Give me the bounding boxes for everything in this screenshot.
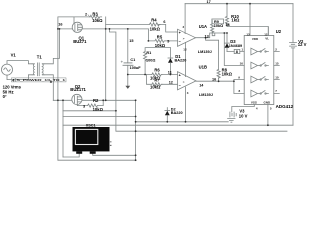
svg-text:LM139J: LM139J [198,50,212,54]
svg-text:3: 3 [187,91,189,95]
svg-text:15: 15 [129,39,133,43]
U1A output wire (net 13 up and right to D3/row2) [196,33,228,38]
bottom rail [58,159,136,161]
wire R1 bottom to net [144,61,146,75]
svg-text:8: 8 [239,89,241,93]
svg-text:C1: C1 [130,58,135,62]
wire Q1 left vertical down (long left bus) [57,17,59,160]
svg-text:BUZ171: BUZ171 [70,87,86,92]
svg-text:10kΩ: 10kΩ [222,72,233,77]
long rail y=131.2 [117,130,288,132]
svg-text:R3: R3 [92,11,98,16]
svg-text:>: > [183,80,185,84]
svg-text:>: > [183,37,185,41]
svg-text:16: 16 [240,61,244,65]
svg-text:VDD: VDD [252,37,259,41]
switch cell S4 [251,90,269,97]
capacitor C1 [121,61,133,65]
svg-text:11: 11 [168,70,172,74]
svg-text:5: 5 [270,107,272,111]
resistor R1 (vertical) [144,52,147,61]
svg-text:BA220: BA220 [175,59,187,63]
svg-text:17: 17 [207,0,211,4]
wire R3 net top [58,16,90,18]
resistor R10 (vertical) [225,4,228,27]
wire R1 top to D1 anode [145,48,170,52]
transistor Q2 [72,94,82,104]
svg-text:10kΩ: 10kΩ [214,24,223,28]
svg-text:18: 18 [225,23,229,27]
diode D1 [168,48,173,75]
op-amp U1B [178,72,197,122]
svg-text:16: 16 [58,23,62,27]
svg-text:14: 14 [199,83,204,87]
wire D3 to chip row1 with boxed 8 [227,51,244,53]
svg-text:6: 6 [163,20,165,24]
svg-text:R4: R4 [151,17,157,22]
wire R7 to U1B pin12 [162,83,178,85]
switch cell S3 [251,76,269,83]
svg-text:XSC1: XSC1 [86,124,96,128]
resistor R5 [148,39,177,42]
svg-text:1: 1 [241,48,243,52]
wire R3 corner to R4 [106,23,150,25]
vertical from Q1 rail jog down to bottom rail [110,29,116,131]
svg-text:R6: R6 [154,68,160,73]
svg-text:R7: R7 [154,79,159,83]
long wire net V3/gnd (y=121.8) [136,121,229,123]
svg-text:10kΩ: 10kΩ [92,18,103,23]
svg-text:100Ω: 100Ω [146,58,155,62]
wire R3 right corner down [105,17,107,100]
wire riser x=135.6 (Q2 rail to bottom) [135,100,137,160]
svg-text:LM139J: LM139J [199,93,213,97]
resistor R2 [88,104,98,107]
svg-text:5: 5 [50,80,52,84]
chip bottom pin 4 to battery V3 [232,105,255,113]
Q1 rail wire [58,28,148,30]
diode D2 [165,108,170,122]
ground arrow below node [127,75,129,86]
chip right stubs [274,52,280,94]
svg-text:S_POWER_10_TO_1: S_POWER_10_TO_1 [17,78,66,82]
Q2 gate wire [77,103,87,105]
svg-text:BA220: BA220 [171,111,183,115]
wire scope bus to jog vertical [63,110,116,112]
svg-text:10kΩ: 10kΩ [150,27,161,32]
svg-text:VL: VL [265,37,269,41]
diode D3 [225,33,230,52]
bracket to R6/R7 [147,75,152,85]
wire R10 bottom to chip pin 12 [227,27,268,36]
scope bus vertical [62,100,64,157]
svg-text:0°: 0° [3,94,7,99]
AC source V1 [2,64,13,75]
wire V1 top to T1 primary top [7,61,32,65]
resistor R9 (vertical) [211,19,224,36]
svg-text:BUZ71: BUZ71 [73,39,87,44]
wire T1 secondary bottom down to Q2 rail (net 5) [44,75,53,101]
svg-text:10kΩ: 10kΩ [155,43,166,48]
resistor R3 [90,15,102,18]
U1B output wire (net 16) and riser to chip rows 3,4 [196,80,244,94]
top supply wire (net 17) [185,3,293,5]
wire T1 secondary top up to Q1 rail / R3 [44,29,60,64]
svg-text:4: 4 [256,107,258,111]
C1 bottom to R6 bracket [128,65,147,74]
svg-text:+: + [179,74,182,78]
svg-text:T1: T1 [37,54,43,59]
svg-text:3: 3 [183,25,185,29]
svg-text:12 V: 12 V [298,42,307,47]
chip switch cells [251,48,269,97]
oscilloscope XSC1 [73,127,112,154]
chip bottom pin 5 down to XSC1 net [267,105,269,126]
svg-text:U1B: U1B [199,65,207,70]
svg-text:9: 9 [238,75,240,79]
transformer T1 [32,63,44,76]
svg-text:10: 10 [275,75,279,79]
wire V1 bottom to T1 primary bottom [7,75,32,80]
Q1 gate wire up [73,17,75,23]
svg-text:V1: V1 [11,53,17,58]
wire scope bus to x=135.6 riser [63,116,136,118]
svg-text:10 V: 10 V [239,113,248,118]
svg-text:9: 9 [167,39,169,43]
XSC1 net long wire [63,124,293,126]
wire R6 to U1B pin11 [162,74,178,76]
wire R4 to U1A +in (net 6) [158,24,177,32]
svg-text:−: − [179,83,182,87]
Q2 rail wire [53,99,135,101]
wire R2 right up to rail [98,100,104,105]
vertical from R4 jog down to R5 row [147,29,149,41]
svg-text:R1: R1 [146,51,151,55]
svg-text:12: 12 [264,32,268,36]
svg-text:GND: GND [264,101,272,105]
svg-text:100uF: 100uF [130,66,142,70]
switch cell S1 [251,48,269,55]
resistor R4 [149,23,160,26]
svg-text:13: 13 [205,35,209,39]
svg-text:−: − [179,40,182,44]
svg-text:10kΩ: 10kΩ [150,84,161,89]
resistor R6 [152,73,162,76]
svg-text:12: 12 [169,81,173,85]
transistor Q1 [72,22,82,32]
svg-text:2: 2 [275,48,277,52]
svg-text:U1A: U1A [199,24,207,29]
svg-text:12: 12 [183,48,187,52]
chip top pins [250,4,268,36]
chip U2 [244,36,274,105]
svg-text:+: + [179,31,182,35]
battery V2 [290,4,297,126]
svg-text:10kΩ: 10kΩ [93,107,104,112]
svg-text:16: 16 [212,78,216,82]
svg-text:1kΩ: 1kΩ [231,18,240,23]
svg-text:2: 2 [85,13,87,17]
battery V3 [230,112,236,117]
svg-text:R5: R5 [157,34,163,39]
svg-text:R2: R2 [93,98,99,103]
resistor R8 (vertical) [217,69,220,81]
resistor R7 [152,83,162,86]
svg-text:8: 8 [236,50,238,54]
ground for V3 [228,119,235,123]
svg-text:3: 3 [83,105,85,109]
switch cell S2 [251,62,269,69]
svg-text:VSS: VSS [251,101,257,105]
svg-text:U2: U2 [276,29,282,34]
svg-text:1N4689: 1N4689 [229,44,242,48]
scope terminal wires [63,154,136,157]
branch down to chip row2 [224,33,244,66]
svg-text:7: 7 [275,89,277,93]
branch down to R8 [206,38,219,70]
net 15 / C1 vertical [127,29,129,63]
op-amp U1A [178,4,196,77]
svg-text:ADG412: ADG412 [276,104,294,109]
svg-text:13: 13 [246,32,250,36]
svg-text:15: 15 [275,61,279,65]
